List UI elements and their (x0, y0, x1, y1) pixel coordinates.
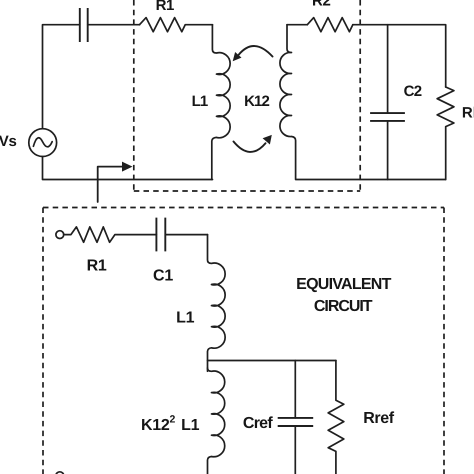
svg-text:Rl: Rl (462, 105, 474, 122)
svg-text:Cref: Cref (243, 415, 273, 432)
svg-text:L1: L1 (192, 93, 208, 110)
svg-text:C2: C2 (404, 83, 422, 100)
svg-text:R1: R1 (87, 258, 107, 275)
svg-text:R1: R1 (156, 0, 174, 14)
svg-text:EQUIVALENT: EQUIVALENT (296, 276, 391, 293)
svg-text:Rref: Rref (363, 410, 394, 427)
svg-text:CIRCUIT: CIRCUIT (314, 298, 373, 315)
svg-text:C1: C1 (153, 268, 173, 285)
svg-text:R2: R2 (312, 0, 331, 10)
svg-text:L1: L1 (176, 310, 194, 327)
svg-text:Vs: Vs (0, 133, 17, 150)
svg-text:K12: K12 (244, 93, 269, 110)
